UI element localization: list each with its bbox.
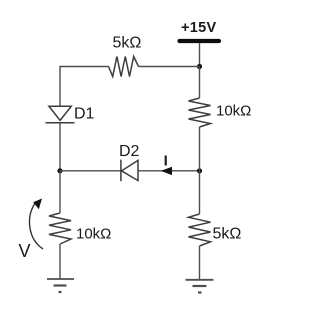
svg-text:5kΩ: 5kΩ xyxy=(113,35,142,52)
wire: node B to R right top xyxy=(199,67,201,99)
svg-text:10kΩ: 10kΩ xyxy=(76,226,111,243)
ground left xyxy=(47,279,74,292)
resistor 5k bottom right zigzag xyxy=(189,214,211,246)
resistor R top 5k zigzag xyxy=(109,57,139,77)
wire: node C to R 5k bottom xyxy=(199,171,201,214)
node C junction dot xyxy=(197,168,202,173)
svg-text:D2: D2 xyxy=(119,143,140,160)
wire: R 5k to right ground xyxy=(199,246,201,280)
svg-text:10kΩ: 10kΩ xyxy=(216,103,251,120)
svg-text:5kΩ: 5kΩ xyxy=(213,226,242,243)
svg-text:D1: D1 xyxy=(74,106,95,123)
wire: supply bar to node B xyxy=(199,43,201,67)
diode D1 xyxy=(46,106,75,123)
wire: top horizontal left segment xyxy=(60,67,109,107)
ground right xyxy=(186,280,214,293)
diode D2 xyxy=(121,160,138,182)
wire: top horizontal right segment xyxy=(139,66,200,68)
wire: node A to R 10k left xyxy=(59,171,61,213)
node B junction dot xyxy=(197,64,202,69)
svg-text:I: I xyxy=(164,152,168,169)
wire: D1 to node A xyxy=(59,123,61,171)
resistor 10k right zigzag xyxy=(189,98,211,127)
wire: D2 to node C xyxy=(138,170,200,172)
wire: R right to node C xyxy=(199,127,201,171)
wire: R 10k left to ground xyxy=(59,244,61,279)
node A junction dot xyxy=(57,168,62,173)
svg-text:V: V xyxy=(19,241,31,261)
current arrow I head xyxy=(161,167,172,175)
wire: node A to D2 xyxy=(60,170,121,172)
svg-text:+15V: +15V xyxy=(181,20,216,36)
resistor 10k bottom left zigzag xyxy=(49,213,71,244)
voltage arrow V arc xyxy=(30,203,44,250)
+15V supply bar xyxy=(180,39,220,43)
voltage arrow V head xyxy=(33,199,42,210)
